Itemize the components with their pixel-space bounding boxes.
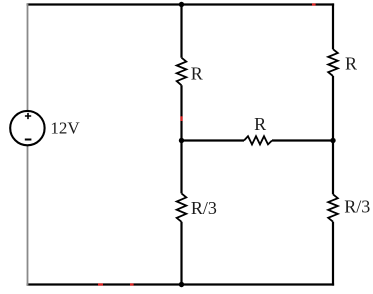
wire right branch bottom segment — [332, 222, 334, 286]
junction node top (middle branch / top net) — [179, 2, 184, 7]
svg-text:R: R — [345, 54, 357, 74]
svg-text:R: R — [254, 114, 266, 134]
svg-text:R/3: R/3 — [191, 198, 217, 218]
wire bridge right segment — [272, 139, 333, 141]
junction node mid-right (right branch / bridge) — [330, 138, 335, 143]
wire highlight mark (top net) — [312, 3, 316, 5]
svg-text:R/3: R/3 — [344, 196, 370, 216]
wire right branch center segment — [332, 76, 334, 194]
wire highlight mark (bottom net left) — [98, 283, 103, 285]
wire right branch upper segment — [332, 3, 334, 49]
junction node mid-left (middle branch / bridge) — [179, 138, 184, 143]
resistor R (middle upper) — [177, 58, 187, 86]
wire highlight mark (middle branch) — [180, 116, 182, 121]
wire bottom horizontal net — [27, 283, 335, 285]
wire middle branch bottom segment — [180, 222, 182, 286]
junction node bottom (middle branch / bottom net) — [179, 282, 184, 287]
svg-text:R: R — [191, 64, 203, 84]
wire middle branch center segment — [180, 85, 182, 193]
resistor R (bridge) — [244, 136, 272, 144]
svg-text:12V: 12V — [50, 119, 80, 138]
voltage source V1 12V — [10, 111, 44, 145]
resistor R/3 (middle lower) — [177, 193, 187, 221]
wire left branch upper (to source V1) — [27, 4, 29, 111]
resistor R/3 (right lower) — [328, 194, 338, 221]
wire bridge left segment — [182, 139, 245, 141]
wire left branch lower (from source V1) — [27, 146, 29, 286]
wire middle branch upper segment — [180, 3, 182, 57]
resistor R (right upper) — [328, 49, 338, 76]
wire top horizontal net — [27, 3, 335, 5]
wire highlight mark (bottom net right) — [130, 283, 134, 285]
